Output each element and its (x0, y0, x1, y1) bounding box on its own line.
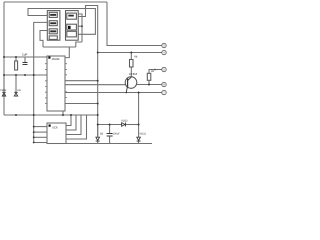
relay B cell1 mark (68, 15, 74, 17)
wire IC U2 bottom stub (62, 111, 64, 115)
junction dot rail3 a (15, 114, 17, 116)
relay block B cell2 (67, 24, 77, 30)
junction dot rail2 bus (33, 74, 35, 76)
diode VD21 leads (3, 75, 5, 92)
junction dot rail3 c (62, 114, 64, 116)
wire top outer loop (4, 1, 107, 3)
svg-text:16F84: 16F84 (52, 57, 60, 61)
junction dot R8 top (130, 52, 132, 54)
resistor R9 body (147, 73, 151, 80)
junction dot relay B riser (81, 25, 83, 27)
relay B indicator mark (68, 26, 71, 29)
relay block A cell2 (49, 21, 57, 26)
wire relay block B pin1 riser (78, 14, 82, 42)
relay block A cell4 (49, 36, 57, 40)
svg-text:VD22: VD22 (140, 133, 147, 136)
wire mid to IC pin (65, 47, 69, 58)
wire connector5 feed (149, 70, 162, 74)
wire ground rail bottom (66, 143, 152, 145)
junction dot bus pin103 (97, 103, 99, 105)
svg-text:R8: R8 (134, 56, 138, 59)
junction dot rail4 bus (97, 124, 99, 126)
wire power rail upper (4, 56, 47, 58)
svg-text:VD21: VD21 (0, 89, 7, 92)
wire cap C2 lead (109, 125, 111, 134)
transistor VT1 base bar (127, 79, 129, 88)
junction dot bus conn4 (97, 52, 99, 54)
svg-text:D8: D8 (100, 133, 104, 136)
junction dot rail3 e (97, 114, 99, 116)
IC U2 body (47, 56, 65, 111)
wire relay block A pin3 (40, 31, 47, 48)
text labels (0, 53, 156, 136)
IC U2 right pins (65, 64, 67, 98)
wire bottom IC pin1 riser (66, 115, 71, 126)
connector pin 7 (162, 90, 166, 94)
relay block B cell3 (67, 31, 77, 37)
diode VD22 symbol (137, 137, 141, 141)
junction dot rail2 C1 (24, 74, 26, 76)
capacitor C1 plates (23, 63, 28, 65)
junction dots (3, 14, 150, 144)
junction dot rail1 left (3, 56, 5, 58)
wire bottom IC pin3 riser (66, 115, 81, 135)
wire connector7 / emitter net (65, 92, 162, 94)
junction dot rail1 R1 (15, 56, 17, 58)
wire relay block B pin riser to bus (78, 6, 88, 17)
wire collector lead (130, 67, 132, 77)
wire right drop to connector 3 (107, 2, 162, 46)
junction dot subbus pins (33, 126, 35, 128)
transistor VT1 collector stroke (128, 77, 132, 80)
transistor VT1 body (125, 77, 137, 89)
diode VD6 leads (15, 75, 17, 92)
IC U2 pin1 mark (48, 57, 50, 59)
wire bottom IC left pin 4 (34, 142, 47, 144)
wire left bus (3, 2, 5, 115)
junction dot rail3 d (70, 114, 72, 116)
wire IC U2 pin to bus (65, 80, 98, 82)
svg-text:XC6: XC6 (52, 126, 58, 130)
wire connector6 (137, 84, 162, 86)
svg-text:VD23: VD23 (121, 120, 128, 123)
wire top third loop (28, 9, 95, 35)
relay A cell1 mark (50, 14, 56, 16)
junction dot rail4 cap (109, 124, 111, 126)
relay A cell3 mark (50, 30, 56, 32)
diode VD20 symbol (96, 137, 100, 141)
connector pin 4 (162, 50, 166, 54)
junction dot R9 bottom (148, 84, 150, 86)
wire VD20 to ground (97, 141, 99, 143)
resistor R8 body (130, 60, 134, 68)
wire relay block A pin2 (34, 22, 48, 75)
transistor VT1 emitter stroke (126, 85, 127, 92)
relay A cell2 mark (50, 22, 56, 24)
wire cap C2 lead low (109, 137, 111, 144)
junction dot rail2 R1 (15, 74, 17, 76)
wire bottom IC pin4 riser (66, 115, 87, 139)
diode VD21 symbol (2, 92, 6, 96)
wire bottom IC left pin 3 (34, 136, 47, 138)
wire bottom IC pin2 riser (66, 115, 76, 130)
connector pin 6 (162, 82, 166, 86)
wire relay B riser staircase (76, 42, 82, 47)
relay block B body (66, 11, 79, 41)
wire base of transistor (65, 84, 125, 86)
wire collector feed (130, 53, 132, 60)
IC U3 pin1 mark (49, 125, 51, 127)
IC U3 body (47, 123, 66, 144)
junction dot emitter net (138, 92, 140, 94)
connector circles (162, 43, 166, 94)
wire center vertical bus (97, 53, 99, 138)
svg-text:KT816: KT816 (129, 72, 138, 76)
junction dot emitter join (126, 92, 128, 94)
relay block A cell3 (49, 29, 57, 34)
capacitor C2 plates (107, 134, 113, 137)
resistor R1 leads (15, 57, 17, 61)
wire rail lower mid right (126, 124, 139, 126)
wire to connector 4 (98, 52, 162, 54)
wire bottom IC left pin 1 (34, 126, 47, 128)
wire R9 to rail6 (148, 80, 150, 84)
svg-text:R: R (154, 69, 156, 72)
junction dot rail4 right (138, 124, 140, 126)
svg-text:+100uF: +100uF (111, 133, 120, 136)
diode VD23 symbol (122, 123, 126, 127)
wire diode VD20 lead (97, 125, 99, 138)
IC U2 left pins (45, 64, 67, 104)
wire power rail lower (4, 74, 47, 76)
wire top second (86, 6, 98, 53)
junction dot rail3 b (33, 114, 35, 116)
relay block B cell1 (67, 13, 77, 19)
relay block A body (47, 11, 60, 41)
capacitor C1 leads (24, 57, 26, 62)
connector pin 5 (162, 67, 166, 71)
wire rail lower mid (98, 124, 122, 126)
junction dot rail2 left (3, 74, 5, 76)
diode VD6 symbol (14, 92, 18, 96)
wire bottom IC left pin 2 (34, 131, 47, 133)
wire right vertical VD bus (138, 93, 140, 138)
wire relay block B pin2 (78, 25, 82, 27)
junction dot bus pin80 (97, 80, 99, 82)
wire rail bottom left (4, 114, 98, 116)
connector pin 3 (162, 43, 166, 47)
wire IC U2 lower pin to bus (65, 103, 98, 105)
relay block A cell1 (49, 12, 57, 17)
svg-text:D6: D6 (18, 89, 22, 92)
wire VD22 to ground (138, 141, 140, 143)
resistor R1 body (15, 61, 18, 70)
svg-text:1uF: 1uF (22, 53, 28, 57)
wire left sub bus (33, 75, 35, 143)
wire mid horizontal (43, 46, 76, 48)
